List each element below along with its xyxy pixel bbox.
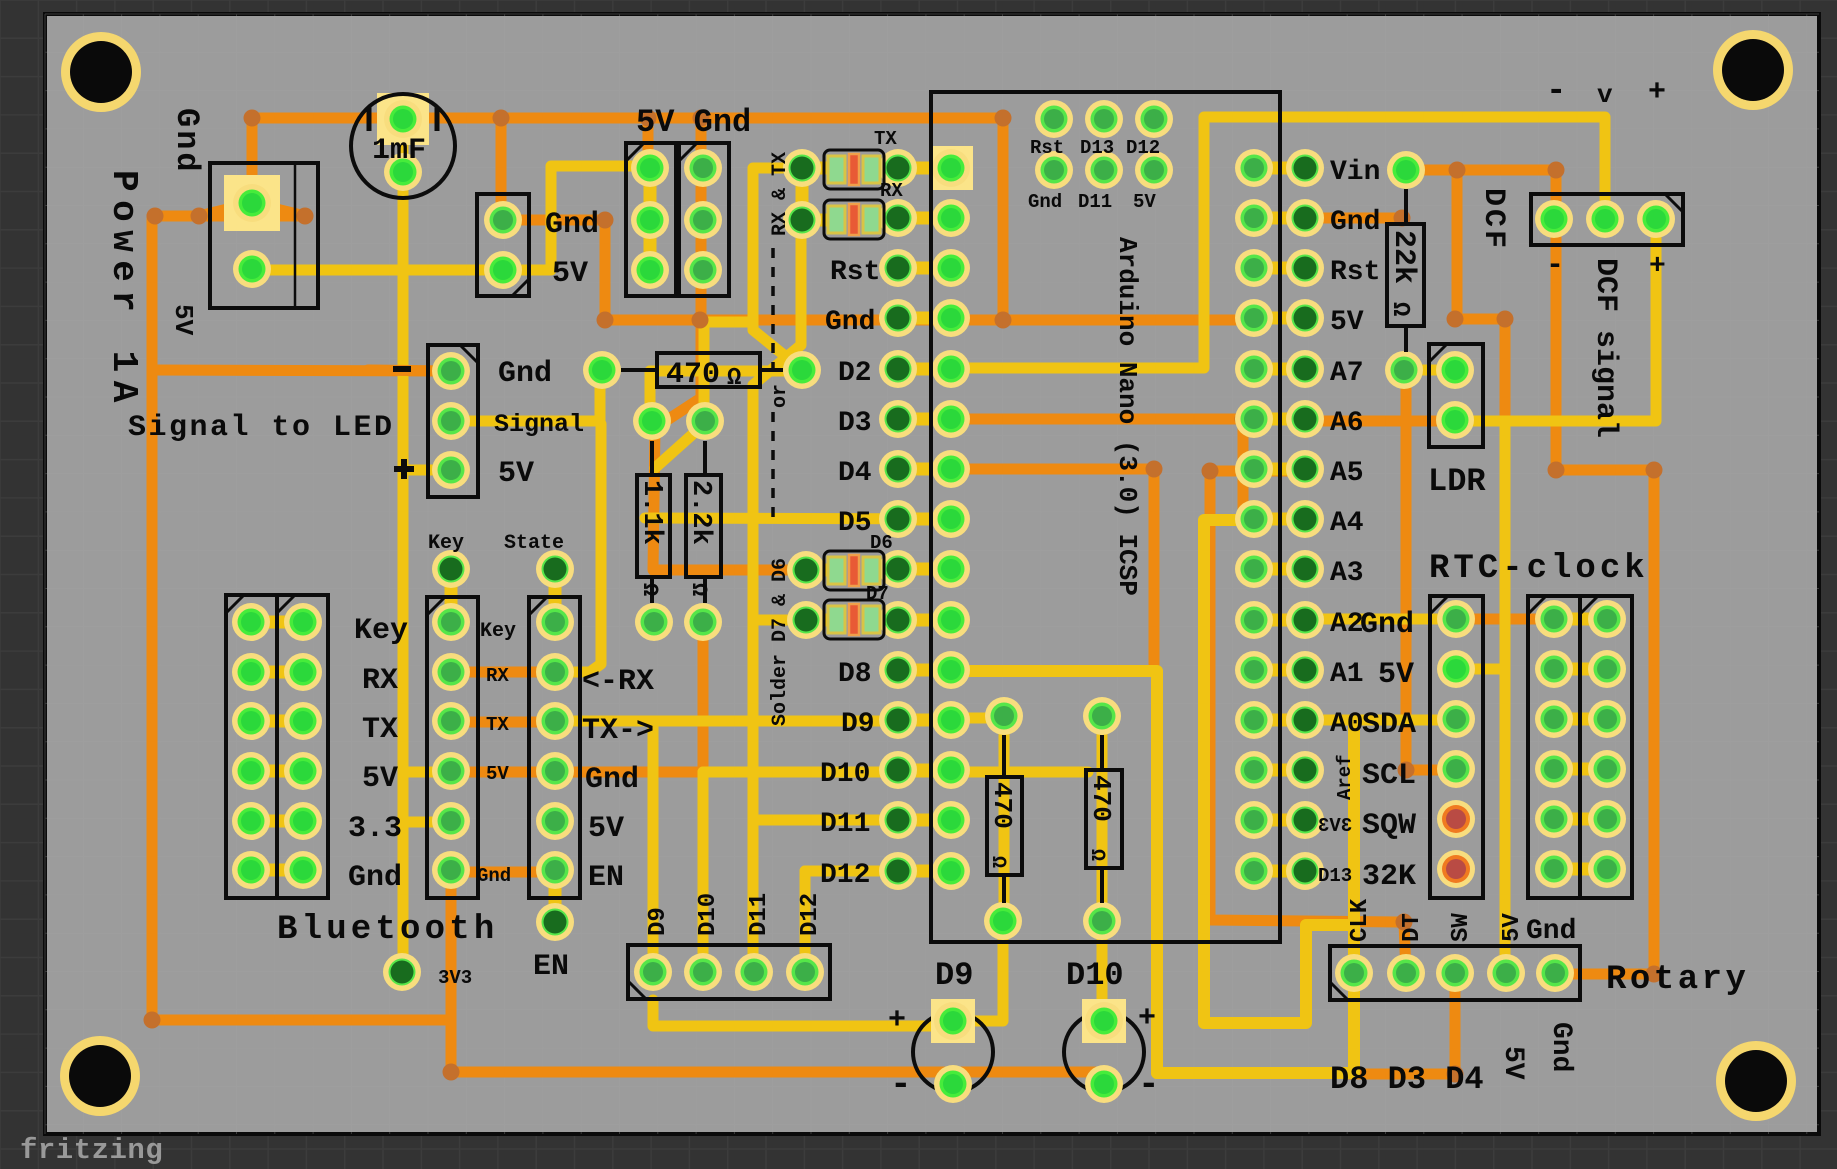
svg-text:470: 470	[987, 782, 1017, 829]
wire TX-> D9 row	[555, 716, 951, 727]
wire header pin2 D10	[698, 772, 709, 972]
svg-text:D10: D10	[820, 759, 870, 790]
pad EN	[536, 903, 574, 941]
wire Vin to DCF minus	[1406, 170, 1556, 219]
svg-text:D13: D13	[1080, 137, 1114, 159]
svg-text:Key: Key	[354, 614, 408, 648]
svg-text:+: +	[1648, 76, 1666, 110]
wire nano pad stubs	[898, 162, 951, 175]
svg-text:A4: A4	[1330, 508, 1364, 539]
RTC left header pads	[1437, 600, 1475, 638]
wire state pad stub	[549, 569, 562, 622]
svg-text:1mF: 1mF	[372, 134, 426, 168]
wire LDR to DCF plus	[1505, 219, 1656, 421]
svg-text:D13: D13	[1318, 865, 1352, 887]
header Gnd/5V pads	[484, 201, 522, 239]
label minus sig	[393, 366, 411, 372]
rotary header outline	[1330, 946, 1580, 1000]
svg-text:5V: 5V	[552, 257, 588, 291]
wire GND power net top	[252, 118, 1254, 320]
svg-text:A7: A7	[1330, 358, 1364, 389]
svg-text:A6: A6	[1330, 408, 1364, 439]
svg-text:Gnd: Gnd	[825, 307, 875, 338]
svg-text:D6: D6	[870, 532, 893, 554]
svg-text:SW: SW	[1448, 913, 1475, 942]
wire GND power diagonals	[199, 203, 252, 216]
pad 3V3	[383, 953, 421, 991]
svg-text:5V: 5V	[1378, 658, 1414, 692]
svg-text:5V: 5V	[1499, 913, 1526, 942]
svg-text:+: +	[1138, 1002, 1156, 1036]
svg-text:D4: D4	[838, 458, 872, 489]
header Signal-to-LED pads	[432, 352, 470, 390]
wire header pin1 D9	[648, 721, 659, 972]
wire GND 5VGnd col2 chain	[696, 118, 707, 320]
svg-text:Ω: Ω	[1386, 302, 1413, 316]
wire A4 long net	[1204, 520, 1354, 1023]
svg-text:Rst: Rst	[1030, 137, 1064, 159]
svg-text:RX: RX	[486, 665, 509, 687]
svg-text:v: v	[1597, 80, 1613, 110]
svg-text:TX: TX	[874, 128, 897, 150]
DCF header pads	[1535, 200, 1573, 238]
svg-text:5V: 5V	[486, 763, 509, 785]
divider resistor pads	[633, 402, 671, 440]
wire minus to signal header	[152, 370, 445, 371]
mounting hole bottom-right	[1716, 1041, 1796, 1121]
svg-text:Bluetooth: Bluetooth	[277, 911, 498, 949]
svg-text:Gnd: Gnd	[168, 108, 205, 175]
svg-text:D12: D12	[820, 860, 870, 891]
svg-text:A3: A3	[1330, 558, 1364, 589]
wire bluetooth pad stubs	[251, 616, 303, 629]
svg-text:TX->: TX->	[582, 714, 654, 748]
wire D4 down	[951, 469, 1154, 664]
mounting hole top-left	[61, 32, 141, 112]
svg-text:TX: TX	[362, 713, 398, 747]
svg-text:-: -	[1546, 249, 1564, 283]
wire key-state TX row	[451, 717, 555, 728]
wire signal to state RX	[555, 424, 601, 672]
jumper RX pads	[783, 201, 821, 239]
wire SMD jumper stubs	[804, 162, 838, 175]
RTC right header pads	[1535, 600, 1573, 638]
wire 5VGnd col1 chain	[644, 168, 657, 270]
wire GND stub to 5VGnd col1 pin1	[643, 118, 654, 166]
wire nano Gnd to 22k	[1305, 213, 1402, 224]
svg-text:Signal to LED: Signal to LED	[128, 411, 395, 445]
key header outline	[427, 597, 478, 898]
wire 470 D10 to LED	[1097, 921, 1108, 1015]
svg-text:A1: A1	[1330, 659, 1364, 690]
arduino nano U1 outline	[931, 92, 1280, 942]
resistor R22k outline	[1387, 224, 1424, 326]
svg-text:Power 1A: Power 1A	[103, 170, 144, 411]
LDR header outline	[1429, 344, 1483, 447]
rotary header pads	[1335, 954, 1373, 992]
wire D8 net	[951, 671, 1157, 1073]
header D9-D12 pads	[634, 953, 672, 991]
RTC right header outline	[1528, 596, 1580, 898]
svg-text:5V: 5V	[1497, 1046, 1528, 1080]
wire 22k to RTC SCL	[1406, 370, 1456, 770]
DCF header outline	[1531, 194, 1683, 245]
wire TX to 2.2k top	[704, 322, 753, 421]
svg-text:Gnd: Gnd	[348, 861, 402, 895]
svg-text:D8 D3 D4: D8 D3 D4	[1330, 1061, 1484, 1098]
wire minus overlay	[368, 370, 445, 371]
trace junction dots	[244, 110, 261, 127]
wire 5V power rail	[252, 166, 644, 270]
wire branch key 3.3	[404, 817, 445, 828]
svg-text:-: -	[1546, 73, 1566, 111]
svg-text:SDA: SDA	[1362, 708, 1416, 742]
svg-text:Gnd: Gnd	[1545, 1022, 1576, 1072]
svg-text:Key: Key	[428, 532, 464, 555]
svg-text:470: 470	[1086, 775, 1116, 822]
LED D10	[1064, 1012, 1144, 1092]
svg-text:D5: D5	[838, 508, 872, 539]
svg-text:32K: 32K	[1362, 860, 1416, 894]
svg-text:Gnd: Gnd	[1360, 608, 1414, 642]
svg-text:-: -	[1138, 1064, 1160, 1105]
svg-text:Gnd: Gnd	[1526, 916, 1576, 947]
svg-text:5V Gnd: 5V Gnd	[636, 104, 751, 141]
svg-text:Gnd: Gnd	[545, 208, 599, 242]
jumper RX outline	[824, 200, 884, 239]
wire A2 RTC Gnd	[1305, 614, 1456, 625]
wire LED plus rail	[403, 465, 445, 476]
svg-text:3.3: 3.3	[348, 812, 402, 846]
svg-text:5V: 5V	[168, 304, 198, 336]
wire signal trace	[451, 372, 600, 421]
wire 470 D10 lead	[1097, 716, 1108, 921]
svg-text:D8: D8	[838, 659, 872, 690]
jumper TX pads	[783, 149, 821, 187]
wire TX-RX pad link	[796, 168, 809, 220]
wire GND bluetooth key col	[451, 872, 1104, 1072]
svg-text:RTC-clock: RTC-clock	[1429, 550, 1649, 588]
wire RX jumper down	[753, 235, 801, 972]
pad Vin junction	[1387, 151, 1425, 189]
svg-text:EN: EN	[588, 861, 624, 895]
wire A5 to rotary DT	[1210, 471, 1406, 974]
resistor R22k bottom pad	[1385, 351, 1423, 389]
svg-text:Rst: Rst	[1330, 257, 1380, 288]
wire EN stub	[549, 872, 562, 922]
svg-text:D12: D12	[797, 893, 824, 936]
jumper D7 outline	[824, 600, 884, 639]
wire A6 to LDR pin2	[1305, 416, 1455, 427]
svg-text:5V: 5V	[1330, 307, 1364, 338]
svg-text:D10: D10	[1066, 957, 1124, 994]
svg-text:State: State	[504, 532, 564, 555]
arduino nano right pads	[1235, 149, 1273, 187]
wire branch key 5V	[404, 767, 445, 778]
bluetooth module pads	[232, 603, 270, 641]
svg-text:Vin: Vin	[1330, 157, 1380, 188]
svg-text:DCF: DCF	[1476, 188, 1510, 251]
wire divider diag	[655, 425, 703, 468]
svg-text:Gnd: Gnd	[498, 357, 552, 391]
jumper TX outline	[824, 150, 884, 189]
resistor 470 D9 outline	[987, 777, 1022, 875]
svg-text:CLK: CLK	[1347, 898, 1374, 942]
wire 22k to LDR pin1	[1406, 365, 1455, 376]
svg-text:Ω: Ω	[686, 583, 711, 596]
svg-text:Arduino Nano (3.0) ICSP: Arduino Nano (3.0) ICSP	[1112, 237, 1142, 596]
svg-text:+: +	[1649, 251, 1666, 282]
svg-text:Gnd: Gnd	[585, 763, 639, 797]
svg-text:D9: D9	[935, 957, 973, 994]
wire TX jumper feed	[753, 168, 802, 368]
svg-text:Ω: Ω	[727, 365, 741, 392]
svg-text:2.2k: 2.2k	[685, 480, 715, 545]
connector J1 Power pads	[224, 175, 280, 231]
wire D11 branch	[753, 815, 951, 826]
svg-text:EN: EN	[533, 950, 569, 984]
svg-text:D9: D9	[841, 709, 875, 740]
svg-text:Ω: Ω	[1085, 849, 1108, 861]
svg-text:Key: Key	[480, 620, 516, 643]
wire GND stub to Gnd header pin	[496, 118, 507, 222]
svg-text:22k: 22k	[1386, 230, 1420, 284]
wire RTC Gnd row	[1456, 614, 1554, 625]
mounting hole bottom-left	[60, 1036, 140, 1116]
svg-text:5V: 5V	[588, 812, 624, 846]
svg-text:RX: RX	[880, 180, 903, 202]
wire DCF minus to rotary Gnd	[1555, 219, 1654, 974]
svg-text:D11: D11	[1078, 191, 1112, 213]
svg-text:Gnd: Gnd	[1330, 207, 1380, 238]
wire key-state Gnd row	[451, 867, 555, 878]
wire cap 1mF chain	[398, 120, 409, 972]
svg-text:3V3: 3V3	[1318, 815, 1352, 837]
svg-text:D12: D12	[1126, 137, 1160, 159]
svg-text:SQW: SQW	[1362, 809, 1416, 843]
svg-text:D2: D2	[838, 358, 872, 389]
wire A0 branch CLK	[1157, 720, 1354, 1073]
wire header pin1 to LED D9	[653, 1000, 935, 1026]
svg-text:A2: A2	[1330, 609, 1364, 640]
resistor 470 D10 outline	[1086, 770, 1122, 868]
LED D9	[913, 1012, 993, 1092]
svg-text:D7: D7	[866, 583, 889, 605]
wire 470 D9 lead	[999, 716, 1010, 921]
svg-text:Rotary: Rotary	[1606, 961, 1749, 999]
resistor 470 D10 pads	[1083, 697, 1121, 735]
svg-text:A0: A0	[1330, 709, 1364, 740]
wire GND Gnd-header to nano	[503, 220, 1003, 320]
svg-text:DT: DT	[1399, 913, 1426, 942]
capacitor C1 outline	[351, 94, 455, 198]
wire Vin branch to LDR col	[1457, 170, 1505, 415]
svg-text:DCF signal: DCF signal	[1588, 258, 1622, 438]
wire D3 to A4	[951, 419, 1243, 522]
svg-text:5V: 5V	[498, 457, 534, 491]
svg-text:D9: D9	[645, 907, 672, 936]
svg-text:470: 470	[666, 358, 720, 392]
wire key pad stub	[445, 569, 458, 622]
svg-text:5V: 5V	[1133, 191, 1156, 213]
svg-text:Ω: Ω	[637, 583, 662, 596]
resistor R1.1k outline	[637, 475, 670, 577]
arduino nano left pads	[879, 149, 917, 187]
svg-text:RX & TX: RX & TX	[769, 152, 792, 236]
svg-text:SCL: SCL	[1362, 759, 1416, 793]
state column pads	[536, 550, 574, 588]
wire D9 row to 470	[951, 713, 1004, 724]
label plus sig	[394, 466, 414, 472]
svg-text:D11: D11	[820, 809, 870, 840]
capacitor C1 pads	[377, 93, 429, 145]
wire 2.2k bottom to 5V row	[698, 622, 709, 772]
wire D10 row right stub	[951, 767, 1088, 778]
svg-text:Gnd: Gnd	[477, 865, 511, 887]
header D9-D12 outline	[628, 945, 830, 999]
wire A0 SDA	[1305, 715, 1456, 726]
header Signal-to-LED outline	[428, 345, 478, 497]
mounting hole top-right	[1713, 30, 1793, 110]
svg-text:TX: TX	[486, 714, 509, 736]
svg-text:D3: D3	[838, 408, 872, 439]
wire RTC 5V branch	[1456, 664, 1505, 675]
svg-text:Signal: Signal	[494, 410, 584, 439]
svg-text:Gnd: Gnd	[1028, 191, 1062, 213]
header Gnd/5V outline	[477, 194, 529, 296]
wire header pin4 D12	[800, 871, 811, 972]
wire D6 select	[653, 320, 806, 570]
wire 470 D9 to LED	[965, 921, 1003, 1021]
ICSP pads	[1035, 100, 1073, 138]
svg-text:5V: 5V	[362, 762, 398, 796]
wire RTC header stubs	[1554, 613, 1607, 626]
resistor R470 pads	[583, 351, 621, 389]
wire D2 to DCF v	[951, 117, 1605, 368]
wire D3 D4 bottom to rotary SW	[1345, 973, 1455, 1074]
svg-text:RX: RX	[362, 664, 398, 698]
header 5V-Gnd outline	[626, 143, 676, 296]
svg-text:Rst: Rst	[830, 257, 880, 288]
jumper D6 outline	[824, 551, 884, 590]
svg-text:Ω: Ω	[986, 856, 1009, 868]
svg-text:Solder D7 & D6: Solder D7 & D6	[769, 558, 792, 726]
svg-text:+: +	[888, 1004, 906, 1038]
wire GND left rail	[152, 216, 451, 1020]
RTC left header outline	[1430, 596, 1483, 898]
wire LDR to rotary 5V	[1455, 421, 1505, 974]
svg-text:Aref: Aref	[1334, 754, 1356, 800]
jumper D7 pads	[787, 601, 825, 639]
header 5V-Gnd 2x3 pads	[631, 149, 669, 187]
svg-text:D10: D10	[695, 893, 722, 936]
state header outline	[529, 597, 580, 898]
key column pads	[432, 550, 470, 588]
wire key-state RX row	[451, 667, 555, 678]
svg-text:1.1k: 1.1k	[636, 480, 666, 545]
svg-text:fritzing: fritzing	[20, 1134, 163, 1167]
selector dashed line	[771, 248, 775, 368]
connector J1 Power outline	[210, 163, 318, 308]
wire key-state 5V row	[451, 767, 703, 778]
LDR header pads	[1436, 351, 1474, 389]
svg-text:or: or	[769, 384, 792, 408]
resistor 470 D9 pads	[985, 697, 1023, 735]
jumper D6 pads	[787, 551, 825, 589]
svg-text:LDR: LDR	[1428, 463, 1486, 500]
svg-text:3V3: 3V3	[438, 967, 472, 989]
svg-text:-: -	[890, 1064, 912, 1105]
bluetooth header outline	[226, 595, 277, 898]
wire D7 branch	[753, 615, 806, 626]
svg-text:A5: A5	[1330, 458, 1364, 489]
resistor R470 outline	[657, 353, 760, 387]
svg-text:<-RX: <-RX	[582, 665, 654, 699]
wire 470 node	[650, 366, 802, 377]
wire D5 to divider	[645, 518, 951, 519]
resistor R2.2k outline	[686, 475, 721, 577]
svg-text:D11: D11	[746, 893, 773, 936]
